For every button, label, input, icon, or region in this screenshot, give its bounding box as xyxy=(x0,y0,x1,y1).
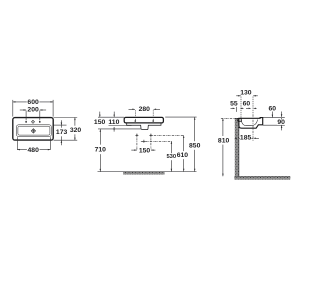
svg-text:710: 710 xyxy=(95,146,107,153)
svg-text:480: 480 xyxy=(28,147,40,154)
svg-text:60: 60 xyxy=(269,105,277,112)
svg-text:150: 150 xyxy=(139,147,151,154)
svg-text:150: 150 xyxy=(94,119,106,126)
svg-text:280: 280 xyxy=(139,106,151,113)
svg-text:320: 320 xyxy=(70,127,82,134)
svg-text:90: 90 xyxy=(277,119,285,126)
svg-text:600: 600 xyxy=(27,99,39,106)
svg-text:610: 610 xyxy=(177,152,189,159)
svg-text:60: 60 xyxy=(243,101,251,108)
svg-text:200: 200 xyxy=(27,107,39,114)
svg-text:173: 173 xyxy=(56,129,68,136)
svg-text:55: 55 xyxy=(230,101,238,108)
svg-text:110: 110 xyxy=(108,119,119,126)
svg-text:130: 130 xyxy=(240,90,252,97)
svg-text:185: 185 xyxy=(240,135,252,142)
svg-text:810: 810 xyxy=(218,137,230,144)
svg-text:850: 850 xyxy=(189,142,201,149)
svg-text:530: 530 xyxy=(166,154,176,160)
